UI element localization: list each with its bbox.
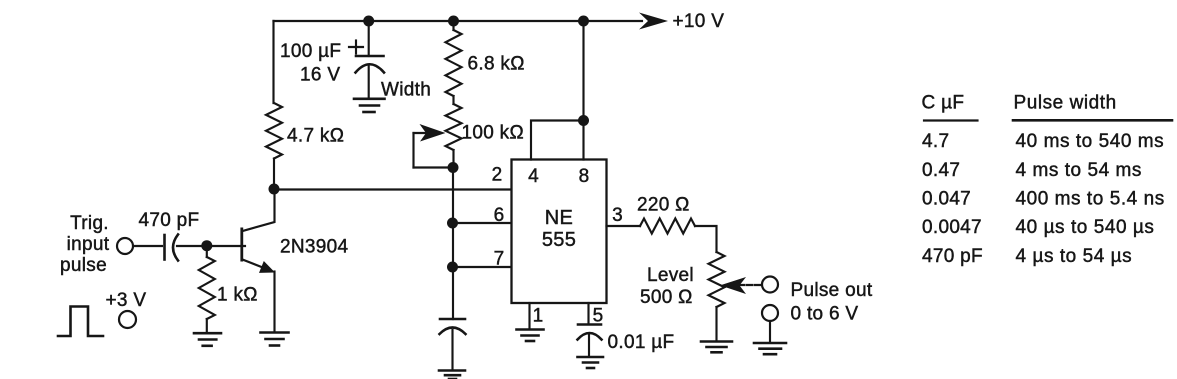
wire +10V top rail [274, 20, 643, 22]
pin 8 label [579, 166, 590, 187]
pin 2 label [492, 165, 503, 186]
svg-text:8: 8 [579, 166, 590, 187]
wire 6.8k top lead [452, 21, 454, 30]
node junction pin6 [447, 218, 458, 229]
node input pulse waveform [58, 307, 103, 337]
svg-text:C µF: C µF [922, 93, 965, 114]
resistor R 1k [199, 257, 258, 319]
wire trig to cap [134, 245, 163, 247]
svg-text:500 Ω: 500 Ω [640, 287, 693, 308]
svg-text:4: 4 [528, 166, 539, 187]
svg-text:0.01 µF: 0.01 µF [608, 332, 675, 353]
node table header Pulse width [1013, 93, 1172, 121]
svg-text:NE: NE [545, 207, 573, 229]
wire 1k top lead [206, 246, 208, 257]
wire 100k wiper arm [414, 133, 450, 168]
svg-text:+10 V: +10 V [673, 11, 725, 32]
svg-text:7: 7 [494, 249, 505, 270]
svg-text:Width: Width [381, 80, 431, 101]
svg-text:100 kΩ: 100 kΩ [462, 123, 524, 144]
pin 7 label [494, 249, 505, 270]
wire collector node to pin2 [274, 188, 512, 190]
wire vertical trigger/threshold bus [452, 168, 454, 320]
ground under 1k [194, 333, 221, 346]
wire pin8 lead [582, 21, 584, 160]
svg-text:4 ms to 54 ms: 4 ms to 54 ms [1016, 160, 1142, 181]
node junction base [201, 240, 212, 251]
node junction rail-right [578, 16, 589, 27]
wire pot to ground [715, 307, 717, 340]
wire 100uF to ground [368, 66, 370, 98]
svg-text:Pulse out: Pulse out [791, 280, 873, 301]
svg-text:1: 1 [533, 306, 544, 327]
node junction rail-mid [448, 16, 459, 27]
svg-text:470 pF: 470 pF [922, 246, 983, 267]
ground under 100uF [354, 99, 385, 112]
wire pin7 lead [453, 266, 512, 268]
node table row 1 [922, 131, 1164, 152]
pin 6 label [494, 205, 505, 226]
resistor R 6.8k [446, 30, 525, 96]
wire pin1 lead [528, 303, 530, 328]
pin 4 label [528, 166, 539, 187]
wire 0.01uF to ground [588, 335, 590, 357]
svg-text:0.47: 0.47 [922, 160, 960, 181]
node label Width [381, 80, 431, 101]
wire 1k to ground [206, 319, 208, 333]
resistor R 4.7k [266, 103, 344, 159]
node +10V arrow [639, 11, 724, 32]
svg-text:Trig.: Trig. [70, 213, 109, 234]
capacitor C 0.01uF [578, 325, 675, 354]
svg-text:1 kΩ: 1 kΩ [217, 285, 258, 306]
svg-text:+3 V: +3 V [106, 290, 147, 311]
svg-text:2: 2 [492, 165, 503, 186]
svg-text:100 µF: 100 µF [280, 41, 341, 62]
node pulse out lower terminal [762, 304, 858, 325]
node +3V terminal [106, 290, 147, 328]
svg-text:6: 6 [494, 205, 505, 226]
svg-text:4 µs to 54 µs: 4 µs to 54 µs [1016, 246, 1133, 267]
node trig input terminal [60, 213, 133, 276]
op-amp U1 NE555 box [512, 160, 607, 304]
svg-text:40 µs to 540 µs: 40 µs to 540 µs [1016, 217, 1155, 238]
svg-text:4.7: 4.7 [922, 131, 949, 152]
wire pin3 lead [607, 225, 641, 227]
node level wiper arrow [720, 277, 762, 294]
node table row 3 [922, 189, 1165, 210]
pin 5 label [593, 306, 604, 327]
node 100k wiper arrow [420, 124, 446, 142]
potentiometer R level 500 [640, 252, 725, 308]
node table row 5 [922, 246, 1132, 267]
svg-text:40 ms to 540 ms: 40 ms to 540 ms [1016, 131, 1165, 152]
capacitor C timing [440, 319, 466, 334]
svg-text:Level: Level [647, 265, 694, 286]
wire 100k bottom to junction [452, 150, 454, 168]
wire left branch down to 4.7k [272, 21, 274, 103]
ground under timing cap [439, 371, 465, 379]
node table row 2 [922, 160, 1142, 181]
wire 100uF top lead [368, 21, 370, 56]
wire pin5 lead [587, 303, 589, 324]
wire between 6.8k and 100k [452, 96, 454, 104]
svg-text:470 pF: 470 pF [139, 210, 200, 231]
wire timing cap to ground [451, 330, 453, 370]
svg-text:0.047: 0.047 [922, 189, 971, 210]
svg-text:4.7 kΩ: 4.7 kΩ [287, 126, 344, 147]
node table header C uF [922, 93, 978, 121]
ground under pulse out [754, 343, 786, 354]
capacitor C 470pF [139, 210, 200, 261]
svg-text:2N3904: 2N3904 [280, 237, 348, 258]
wire 220 to level pot [695, 226, 717, 252]
svg-text:6.8 kΩ: 6.8 kΩ [468, 54, 525, 75]
pin 1 label [533, 306, 544, 327]
ground under level pot [701, 342, 732, 353]
svg-text:input: input [67, 234, 110, 255]
node junction pin4/pin8 [578, 115, 589, 126]
potentiometer R 100k [446, 104, 524, 150]
ground under emitter [261, 333, 289, 346]
svg-text:Pulse width: Pulse width [1014, 93, 1117, 114]
svg-text:400 ms to 5.4 ns: 400 ms to 5.4 ns [1016, 189, 1165, 210]
node junction rail-left [363, 16, 374, 27]
svg-text:pulse: pulse [60, 255, 107, 276]
wire pin6 lead [453, 222, 512, 224]
svg-text:0.0047: 0.0047 [922, 217, 982, 238]
svg-text:16 V: 16 V [300, 65, 340, 86]
node junction collector [269, 184, 280, 195]
svg-text:220 Ω: 220 Ω [637, 195, 690, 216]
transistor Q1 2N3904 [242, 194, 349, 331]
node pulse out terminal [762, 277, 873, 302]
node junction pin7 [447, 262, 458, 273]
resistor R 220 [637, 195, 695, 234]
node table row 4 [922, 217, 1154, 238]
ground under pin1 [517, 330, 544, 342]
wire pin4 lead [531, 121, 584, 160]
pin 3 label [612, 205, 623, 226]
svg-text:555: 555 [542, 229, 576, 251]
wire base lead [207, 245, 245, 247]
svg-text:3: 3 [612, 205, 623, 226]
svg-text:0 to 6 V: 0 to 6 V [791, 304, 859, 325]
node junction pot bottom [448, 162, 459, 173]
wire lower terminal to ground [769, 321, 771, 342]
wire 4.7k to collector node [273, 159, 275, 190]
ground under 0.01uF [578, 357, 604, 368]
wire cap to base node [177, 245, 202, 247]
capacitor C 100uF 16V [280, 41, 384, 86]
